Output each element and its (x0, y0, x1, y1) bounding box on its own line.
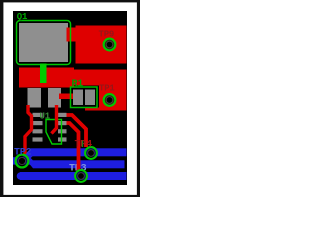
testpoint TP2 pad (16, 155, 29, 168)
svg-text:TP4: TP4 (75, 139, 93, 150)
copper pour upper (top layer) (76, 26, 127, 64)
IC U1 pad 6 (58, 129, 67, 133)
page border left (0, 0, 3, 197)
copper band below Q1 tab (19, 68, 74, 88)
testpoint TP9 pad (104, 39, 116, 51)
testpoint TP4 pad (85, 147, 97, 159)
Q1 silkscreen tab mark (40, 64, 47, 84)
svg-text:R1: R1 (72, 79, 84, 90)
IC U1 pad 2 (33, 121, 43, 125)
testpoint TP3 pad (75, 170, 87, 182)
page border bottom (0, 195, 140, 197)
silkscreen tick near TP4 label (82, 141, 83, 148)
bottom trace net2 (33, 160, 125, 168)
bottom trace net1 jog at TP2 (25, 151, 33, 159)
svg-text:TP9: TP9 (99, 30, 115, 40)
wire U1 pad8 to TP4 (67, 115, 87, 147)
Q1 pad 2 (48, 88, 61, 108)
transistor Q1 tab pad (19, 23, 68, 62)
IC U1 pad 7 (58, 121, 67, 125)
wire U1 pad7 to TP3 (67, 123, 79, 171)
IC U1 pad 1 (33, 113, 43, 117)
IC U1 pad 8 (58, 113, 67, 117)
copper pour lower (top layer) (73, 70, 127, 111)
svg-text:TP1: TP1 (99, 84, 115, 94)
Q1 pad 1 (28, 88, 42, 108)
pour clearance around R1 left (66, 86, 85, 111)
page background (0, 0, 140, 197)
wire Q1 pad2 to R1 pad1 (59, 94, 75, 100)
testpoint TP1 pad (104, 94, 116, 106)
R1 silkscreen outline (71, 87, 98, 108)
Q1 silkscreen outline (17, 21, 71, 65)
wire Q1 pad2 down under U1 (52, 105, 57, 134)
wire Q1 tab to pour (67, 28, 77, 42)
IC U1 pad 4 (33, 137, 43, 141)
page border top (0, 0, 140, 2)
bottom trace net3 (20, 172, 127, 180)
resistor R1 pad 1 (73, 90, 83, 106)
board editor background (13, 11, 127, 185)
U1 silkscreen outline (46, 120, 62, 145)
page border right (137, 0, 140, 197)
resistor R1 pad 2 (85, 90, 95, 106)
pour clearance around R1 right (85, 86, 99, 108)
svg-text:U1: U1 (40, 111, 51, 121)
bottom trace net2 jog (30, 157, 33, 168)
wire Q1 pad1 to TP2 (25, 105, 32, 154)
bottom trace net1 (31, 148, 127, 156)
svg-text:Q1: Q1 (17, 12, 28, 22)
IC U1 pad 3 (33, 129, 43, 133)
IC U1 pad 5 (58, 137, 67, 141)
svg-text:TP2: TP2 (14, 147, 32, 158)
bottom trace net3 round cap (17, 172, 25, 180)
bottom trace net2 left stub (13, 157, 30, 164)
